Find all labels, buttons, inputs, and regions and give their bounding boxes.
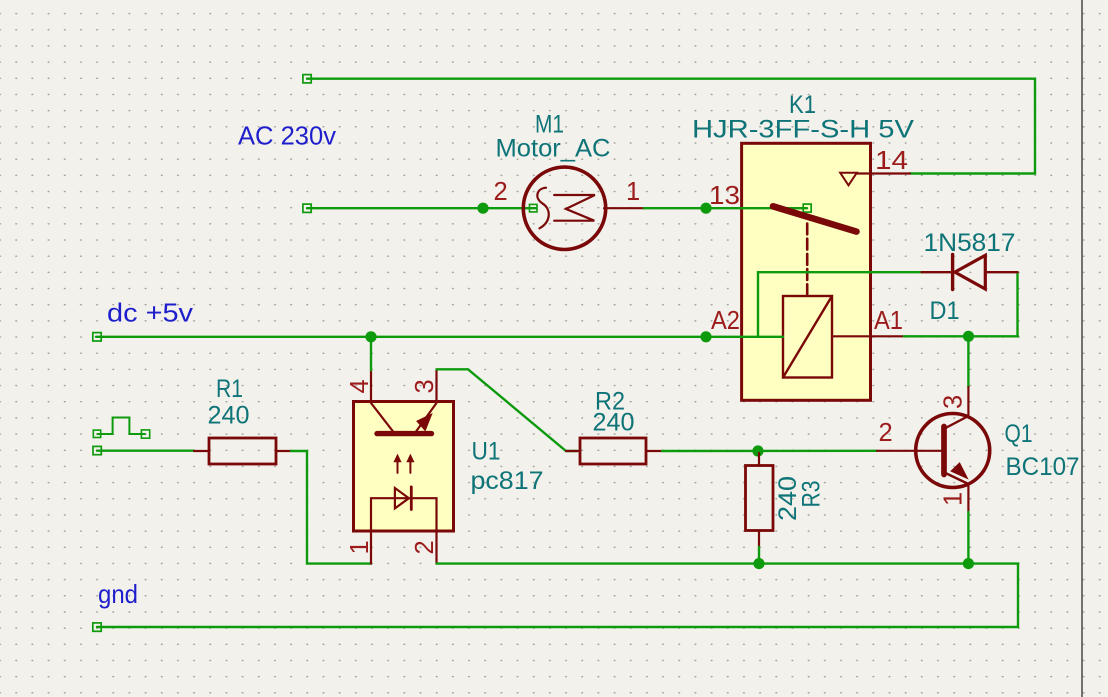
svg-text:2: 2 (494, 178, 508, 206)
svg-text:4: 4 (346, 379, 374, 393)
resistor R2 right lead (646, 450, 662, 452)
optocoupler U1 body (354, 402, 454, 532)
svg-text:BC107: BC107 (1006, 453, 1080, 481)
junction (752, 445, 763, 456)
junction (963, 331, 974, 342)
svg-text:HJR-3FF-S-H 5V: HJR-3FF-S-H 5V (692, 116, 914, 144)
relay K1 actuator dashed line (806, 224, 809, 295)
wire end terminal (dc rail) (93, 333, 101, 341)
wire: Q1 emitter down (967, 512, 969, 564)
svg-text:3: 3 (940, 395, 968, 409)
relay K1 switch lever (773, 206, 857, 231)
svg-text:R3: R3 (798, 481, 826, 508)
junction (963, 558, 974, 569)
junction (365, 331, 376, 342)
diode D1 cathode bar (951, 255, 954, 290)
svg-text:13: 13 (709, 182, 740, 210)
optocoupler U1 phototransistor emitter line (416, 403, 436, 431)
junction (477, 203, 488, 214)
wire: U1 pin 4 up to dc rail (370, 337, 372, 371)
svg-text:14: 14 (875, 147, 908, 175)
transistor Q1 body circle (916, 414, 990, 488)
optocoupler U1 base bar (377, 431, 432, 436)
relay K1 pin A1 lead (832, 335, 904, 337)
optocoupler U1 light arrow left (397, 457, 399, 473)
wire: R1 to U1 pin 1 (291, 451, 371, 564)
wire: dc +5v rail (96, 336, 783, 338)
junction (700, 331, 711, 342)
relay K1 body (742, 143, 871, 400)
svg-text:A2: A2 (711, 307, 740, 335)
wire: collector wire down from A1 junction (967, 336, 969, 387)
wire: diode right leg down (1016, 272, 1018, 336)
svg-text:1: 1 (346, 540, 374, 554)
wire: A1 to D1 junction (904, 335, 1018, 337)
svg-text:pc817: pc817 (471, 467, 544, 495)
diode D1 left lead (922, 271, 952, 273)
relay K1 pin 14 triangle (840, 173, 857, 186)
svg-text:2: 2 (879, 419, 893, 447)
resistor R1 right lead (276, 450, 291, 452)
wire: input to R1 (97, 450, 194, 452)
motor pin 2 wire-end square (530, 204, 538, 212)
optocoupler U1 LED cathode bar (410, 487, 413, 510)
optocoupler U1 LED triangle (395, 488, 409, 508)
svg-text:240: 240 (208, 402, 250, 430)
svg-text:A1: A1 (874, 307, 903, 335)
resistor R1 body (209, 438, 276, 464)
junction (753, 558, 764, 569)
resistor R3 body (746, 466, 774, 531)
resistor R2 left lead (566, 450, 580, 452)
pulse symbol right square (141, 430, 149, 438)
motor M1 sideways M (554, 195, 595, 221)
diode D1 right lead (987, 271, 1018, 273)
optocoupler U1 light arrow right (409, 457, 411, 473)
wire: R2 to Q1 base (662, 450, 877, 453)
svg-text:3: 3 (411, 379, 439, 393)
wire: AC terminal to motor pin 2 (307, 207, 536, 209)
relay K1 coil box (783, 296, 832, 378)
svg-text:Motor_AC: Motor_AC (496, 135, 611, 163)
motor M1 body circle (523, 167, 605, 249)
relay K1 coil diagonal (783, 296, 832, 378)
svg-text:1: 1 (940, 492, 968, 506)
wire: R3 to gnd wire (758, 547, 760, 564)
sheet right border (1081, 0, 1083, 697)
wire end terminal (gnd) (93, 623, 101, 631)
transistor Q1 pin 1 lead (967, 484, 969, 513)
resistor R2 body (580, 438, 646, 464)
diode D1 triangle (955, 255, 985, 289)
transistor Q1 emitter line (947, 474, 969, 485)
optocoupler U1 pin 4 lead (370, 370, 372, 402)
wire: bottom gnd return (97, 564, 1018, 627)
transistor Q1 base bar (941, 427, 947, 475)
resistor R3 top lead (758, 453, 760, 466)
resistor R3 bottom lead (758, 531, 760, 548)
transistor Q1 pin 3 lead (967, 387, 969, 416)
svg-text:dc +5v: dc +5v (107, 298, 193, 328)
optocoupler U1 pin 1 lead (370, 530, 372, 563)
relay K1 pin 14 lead (857, 172, 910, 174)
motor M1 pin 1 lead (604, 207, 644, 209)
svg-text:1: 1 (626, 178, 640, 206)
svg-text:R1: R1 (216, 375, 243, 403)
svg-text:D1: D1 (930, 297, 960, 325)
transistor Q1 base lead (877, 450, 941, 452)
optocoupler U1 LED bridge (371, 498, 437, 530)
resistor R1 left lead (194, 450, 209, 452)
wire: U1 pin 3 to R2 (437, 369, 578, 451)
wire: top AC wire from terminal to relay pin 14 (307, 79, 1035, 174)
transistor Q1 collector line (947, 416, 969, 428)
motor M1 S curve (537, 188, 548, 229)
wire end terminal (top left) (303, 75, 311, 83)
svg-text:gnd: gnd (98, 579, 138, 609)
wire end terminal (AC mid) (303, 204, 311, 212)
svg-text:1N5817: 1N5817 (924, 229, 1016, 257)
wire: coil branch up to diode (758, 272, 922, 337)
input pulse symbol (98, 418, 146, 435)
pulse symbol left square (93, 430, 100, 437)
wire end terminal (input) (93, 446, 101, 454)
svg-text:AC 230v: AC 230v (238, 121, 336, 151)
svg-text:240: 240 (593, 409, 635, 437)
optocoupler U1 pin 2 lead (435, 530, 437, 563)
optocoupler U1 emitter arrow (417, 414, 432, 431)
svg-text:U1: U1 (472, 438, 501, 466)
relay pin 13 wire-end square (803, 204, 811, 212)
svg-text:2: 2 (411, 540, 439, 554)
optocoupler U1 phototransistor collector line (371, 403, 393, 431)
optocoupler U1 pin 3 lead (435, 370, 437, 402)
svg-text:Q1: Q1 (1005, 420, 1033, 448)
junction (700, 203, 711, 214)
wire: motor pin 1 to relay pin 13 (644, 207, 807, 209)
transistor Q1 emitter arrow (952, 464, 967, 478)
